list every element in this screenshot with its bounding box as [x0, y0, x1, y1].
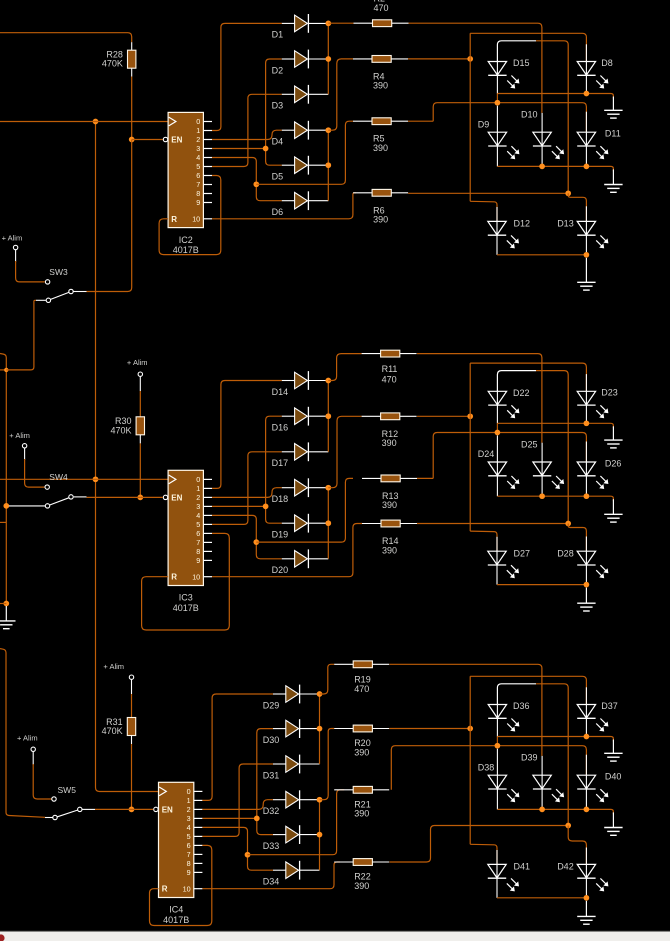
- svg-text:1: 1: [196, 126, 200, 135]
- LED D24: [488, 462, 506, 476]
- wire row1 cathode rail: [496, 75, 498, 93]
- IC4 4017B: [159, 782, 194, 897]
- svg-text:2: 2: [187, 805, 191, 814]
- node D29 cathode: [317, 691, 323, 697]
- wire to D13: [568, 193, 586, 221]
- svg-text:D2: D2: [272, 65, 284, 75]
- resistor R20 390: [334, 728, 353, 730]
- svg-text:D17: D17: [272, 458, 289, 468]
- diode D2: [282, 58, 295, 60]
- wire R31 to EN node: [131, 744, 133, 809]
- svg-text:6: 6: [196, 529, 200, 538]
- wire corner rail to D8: [470, 33, 586, 61]
- svg-text:470K: 470K: [102, 726, 123, 736]
- node D4 cathode: [325, 127, 331, 133]
- svg-text:390: 390: [354, 747, 369, 757]
- svg-text:8: 8: [196, 547, 200, 556]
- svg-text:3: 3: [196, 502, 200, 511]
- diode D32: [273, 799, 286, 801]
- wire SW3 lever to EN net: [74, 291, 87, 293]
- wire R19 to center LED D39: [390, 664, 542, 756]
- svg-text:D28: D28: [557, 548, 574, 558]
- node pin3 junction IC3: [263, 504, 269, 510]
- wire stub to edge y=522.4: [0, 521, 6, 523]
- wire SW5 lever to EN net: [82, 808, 95, 810]
- wire R2 to center LED D10: [409, 23, 542, 113]
- wire SW4 bottom to left net: [9, 505, 45, 507]
- LED D27: [488, 551, 506, 565]
- wire clock bus vertical: [95, 122, 97, 480]
- wire to D12: [470, 201, 497, 221]
- LED D23: [577, 391, 595, 405]
- node pin4 junction IC2: [253, 181, 259, 187]
- wire cathode rail D29-D31: [319, 694, 321, 764]
- wire pin1 IC4 to D29: [202, 694, 273, 800]
- node EN junction IC3: [137, 495, 143, 501]
- wire R13 row to row2 rail: [417, 477, 433, 479]
- svg-text:+ Alim: + Alim: [103, 662, 124, 671]
- resistor R31 470K: [127, 718, 135, 736]
- wire +Alim to SW3: [15, 250, 17, 262]
- svg-text:390: 390: [382, 438, 397, 448]
- ground GND row2: [612, 169, 614, 184]
- diode D19: [282, 522, 295, 524]
- node D33 cathode: [317, 832, 323, 838]
- wire SW4 lever to EN net: [74, 496, 87, 498]
- node middle rail junction: [565, 190, 571, 196]
- svg-text:D4: D4: [272, 137, 284, 147]
- node pin3 junction IC4: [254, 816, 260, 822]
- wire row2 anode rail: [391, 746, 497, 790]
- svg-text:3: 3: [196, 144, 200, 153]
- svg-text:6: 6: [187, 841, 191, 850]
- wire cathode rail D32-D34: [319, 800, 321, 871]
- node D19 cathode: [325, 520, 331, 526]
- svg-text:D25: D25: [521, 439, 538, 449]
- svg-text:6: 6: [196, 171, 200, 180]
- wire to D27: [470, 531, 497, 551]
- svg-text:470: 470: [354, 684, 369, 694]
- ground GND row1: [612, 426, 614, 440]
- svg-text:D22: D22: [513, 388, 530, 398]
- node D10 cathode: [539, 164, 545, 170]
- switch SW5: [57, 810, 77, 817]
- svg-text:+ Alim: + Alim: [9, 431, 30, 440]
- wire row2 cathode rail: [496, 789, 498, 809]
- svg-text:R: R: [171, 573, 177, 582]
- svg-text:2: 2: [196, 493, 200, 502]
- wire white series link rail: [497, 684, 536, 705]
- node D13 cathode: [584, 252, 590, 258]
- LED D25: [533, 462, 551, 476]
- wire corner-pip vertical block3: [469, 676, 471, 844]
- resistor R30 470K: [136, 417, 144, 435]
- node EN junction IC4: [129, 807, 135, 813]
- wire row3 cathode rail: [496, 878, 498, 898]
- wire pin3 IC3 row: [212, 505, 266, 507]
- resistor R6 390: [353, 192, 372, 194]
- svg-text:D8: D8: [601, 58, 613, 68]
- wire cathode rail D18-D20: [327, 488, 329, 559]
- resistor R2 470: [354, 22, 373, 24]
- svg-text:8: 8: [196, 189, 200, 198]
- LED D8: [577, 62, 595, 76]
- LED D26: [577, 462, 595, 476]
- node R12 rail junction: [467, 413, 473, 419]
- svg-text:470K: 470K: [110, 425, 131, 435]
- wire R22 row to cluster node: [390, 826, 569, 863]
- wire to D42: [568, 826, 586, 865]
- node R20 rail junction: [467, 726, 473, 732]
- ground GND row3: [585, 258, 587, 283]
- svg-text:3: 3: [187, 814, 191, 823]
- svg-text:R: R: [162, 885, 168, 894]
- LED D36: [488, 705, 506, 719]
- node R4 rail junction: [467, 56, 473, 62]
- diode D16: [282, 415, 295, 417]
- resistor R13 390: [362, 477, 381, 479]
- svg-text:D36: D36: [513, 701, 530, 711]
- wire +Alim to R31: [131, 680, 133, 694]
- wire pin6 reset loop IC3: [142, 533, 230, 630]
- wire link rail1-rail2: [496, 94, 498, 103]
- node D30 cathode: [317, 726, 323, 732]
- wire pin4 IC3 to D20: [212, 515, 282, 558]
- wire EN row block2: [87, 496, 141, 498]
- svg-text:R11: R11: [382, 364, 398, 374]
- svg-text:D9: D9: [478, 119, 490, 129]
- svg-text:390: 390: [373, 143, 388, 153]
- svg-text:390: 390: [382, 545, 397, 555]
- resistor R12 390: [362, 415, 381, 417]
- wire corner rail to D37: [470, 676, 586, 704]
- diode D20: [282, 558, 295, 560]
- svg-text:D19: D19: [272, 530, 289, 540]
- wire to D41: [470, 844, 497, 864]
- wire EN node down to SW3: [87, 140, 132, 292]
- resistor R11 470: [362, 353, 381, 355]
- svg-text:470: 470: [382, 375, 397, 385]
- svg-text:4: 4: [187, 823, 191, 832]
- svg-text:EN: EN: [171, 136, 182, 145]
- node D14 cathode: [325, 378, 331, 384]
- svg-text:D6: D6: [272, 207, 284, 217]
- svg-text:D32: D32: [263, 806, 280, 816]
- wire stub to edge y=369.9: [0, 369, 6, 371]
- wire pin4 IC4 to D34: [202, 827, 273, 870]
- LED D22: [488, 391, 506, 405]
- wire R12 to corner rail: [417, 415, 470, 417]
- resistor R28 470K: [131, 42, 133, 50]
- wire link rail1-rail2: [496, 737, 498, 746]
- node middle rail junction: [565, 521, 571, 527]
- wire row2 cathode rail: [496, 476, 498, 496]
- wire +V top feed to R28: [0, 33, 132, 43]
- svg-text:D33: D33: [263, 841, 280, 851]
- node middle rail junction: [565, 823, 571, 829]
- svg-text:D39: D39: [521, 753, 538, 763]
- svg-text:D12: D12: [514, 219, 531, 229]
- wire corner rail to D23: [470, 363, 586, 391]
- svg-text:9: 9: [196, 198, 200, 207]
- wire clock row block1: [0, 121, 168, 123]
- svg-text:D10: D10: [521, 110, 538, 120]
- node ground junction left: [3, 601, 9, 607]
- wire +Alim to SW4: [24, 448, 26, 460]
- wire pin5 IC4 to D31: [202, 764, 273, 836]
- svg-text:470: 470: [374, 3, 389, 13]
- svg-text:D31: D31: [263, 770, 280, 780]
- wire R4 to corner rail: [408, 58, 470, 60]
- wire pin5 IC2 to D3: [212, 94, 282, 166]
- LED D10: [533, 132, 551, 146]
- node D28 cathode: [584, 582, 590, 588]
- wire pin4 node to R21: [248, 790, 345, 855]
- diode D18: [282, 487, 295, 489]
- wire cathode rail D1-D3: [327, 23, 329, 94]
- wire pin6 reset loop IC2: [159, 176, 221, 255]
- wire pin4 node to R13: [256, 478, 353, 542]
- svg-text:D41: D41: [514, 862, 531, 872]
- svg-text:9: 9: [187, 868, 191, 877]
- wire row3 cathode rail: [496, 565, 498, 585]
- wire row3 cathode rail: [496, 235, 498, 255]
- svg-text:+ Alim: + Alim: [127, 358, 148, 367]
- resistor R22 390: [334, 861, 353, 863]
- window bottom bar: [0, 931, 670, 932]
- LED D12: [488, 221, 506, 235]
- svg-text:D26: D26: [605, 458, 622, 468]
- LED D11: [577, 132, 595, 146]
- wire pin1 IC3 to D14: [212, 381, 282, 489]
- svg-text:2: 2: [196, 135, 200, 144]
- node D11 cathode: [584, 164, 590, 170]
- svg-text:0: 0: [196, 117, 200, 126]
- svg-text:5: 5: [187, 832, 191, 841]
- svg-text:D29: D29: [263, 700, 280, 710]
- svg-text:SW3: SW3: [49, 267, 68, 277]
- node row2 anode junction: [495, 430, 501, 436]
- wire pin6 reset loop IC4: [150, 845, 212, 925]
- node D37 cathode: [584, 734, 590, 740]
- svg-text:D15: D15: [513, 58, 530, 68]
- svg-text:D20: D20: [272, 565, 289, 575]
- node D25 cathode: [539, 493, 545, 499]
- svg-text:D42: D42: [557, 862, 574, 872]
- svg-text:4: 4: [196, 511, 200, 520]
- svg-text:390: 390: [354, 881, 369, 891]
- wire R5 row to row2 rail: [408, 120, 433, 122]
- wire D29 node to R19: [320, 664, 335, 694]
- node D39 cathode: [539, 807, 545, 813]
- ground GND row3: [585, 901, 587, 917]
- svg-text:IC2: IC2: [179, 235, 193, 245]
- node D23 cathode: [584, 420, 590, 426]
- wire D4 node to R4: [328, 59, 353, 130]
- wire +Alim to R30: [139, 377, 141, 391]
- node row2 anode junction: [495, 100, 501, 106]
- resistor R14 390: [362, 523, 381, 525]
- wire link rail1-rail2: [496, 423, 498, 432]
- switch SW4: [50, 498, 69, 505]
- LED D9: [488, 132, 506, 146]
- svg-text:+ Alim: + Alim: [17, 733, 38, 742]
- svg-text:D11: D11: [605, 129, 621, 139]
- node D8 cathode: [584, 91, 590, 97]
- svg-text:D27: D27: [514, 548, 531, 558]
- svg-text:5: 5: [196, 520, 200, 529]
- wire pin10 IC3 to R14: [212, 524, 362, 577]
- wire pin2 IC3 to D18: [212, 488, 282, 498]
- wire pin4 node to R5: [256, 121, 353, 184]
- node D18 cathode: [325, 485, 331, 491]
- wire left-edge net upper: [0, 354, 6, 604]
- wire R11 to center LED D25: [417, 354, 542, 443]
- wire SW5 bottom lead: [45, 817, 53, 819]
- svg-text:D16: D16: [272, 423, 289, 433]
- LED D42: [577, 864, 595, 878]
- svg-text:10: 10: [192, 572, 200, 581]
- node EN junction IC2: [129, 137, 135, 143]
- resistor R21 390: [334, 789, 353, 791]
- wire pin10 IC2 to R6: [212, 193, 356, 219]
- wire row2 anode rail: [433, 433, 497, 479]
- resistor R19 470: [334, 663, 353, 665]
- wire R30 to EN node: [139, 443, 141, 497]
- wire row2 anode rail: [433, 103, 497, 122]
- wire stub to edge y=603.5: [0, 603, 6, 605]
- IC2 4017B: [168, 112, 203, 227]
- wire cathode rail D14-D17: [327, 381, 329, 452]
- wire cathode rail D4-D6: [327, 130, 329, 201]
- svg-text:D5: D5: [272, 172, 284, 182]
- wire SW3 bottom to left net: [36, 299, 46, 301]
- resistor R4 390: [353, 58, 372, 60]
- wire clock row block2: [0, 478, 168, 480]
- svg-text:390: 390: [382, 500, 397, 510]
- diode D33: [273, 834, 286, 836]
- svg-text:EN: EN: [171, 493, 182, 502]
- node D16 cathode: [325, 413, 331, 419]
- svg-text:4: 4: [196, 153, 200, 162]
- wire row1 cathode rail: [496, 718, 498, 736]
- node D40 cathode: [584, 807, 590, 813]
- wire R28 to EN node: [131, 77, 133, 140]
- wire pin3 IC2 row: [212, 148, 266, 150]
- wire pin2 IC2 to D4: [212, 130, 282, 139]
- wire diode rail D2-D5 feed: [266, 59, 282, 165]
- switch SW3: [51, 292, 69, 299]
- svg-text:4017B: 4017B: [173, 603, 199, 613]
- svg-text:7: 7: [196, 180, 200, 189]
- svg-text:D24: D24: [478, 449, 495, 459]
- svg-text:D38: D38: [478, 762, 495, 772]
- svg-text:1: 1: [187, 796, 191, 805]
- diode D1: [282, 22, 295, 24]
- wire diode rail D30-D33 feed: [257, 729, 273, 835]
- node D5 cathode: [325, 162, 331, 168]
- wire diode rail D16-D19 feed: [266, 416, 282, 523]
- ground GND row1: [612, 97, 614, 111]
- svg-text:D1: D1: [272, 30, 284, 40]
- wire R6 row to cluster: [408, 192, 568, 194]
- node row2 anode junction: [495, 743, 501, 749]
- wire white series link rail: [497, 371, 536, 392]
- wire R2 row from D1 node: [328, 22, 353, 24]
- wire pin5 IC3 to D17: [212, 452, 282, 525]
- svg-text:8: 8: [187, 859, 191, 868]
- node clock bus junction block2: [93, 476, 99, 482]
- svg-text:D3: D3: [272, 101, 284, 111]
- node pin4 junction IC3: [253, 539, 259, 545]
- resistor R5 390: [353, 120, 372, 122]
- svg-text:D34: D34: [263, 877, 280, 887]
- svg-text:D37: D37: [601, 701, 618, 711]
- diode D3: [282, 93, 295, 95]
- node D32 cathode: [317, 797, 323, 803]
- node D26 cathode: [584, 493, 590, 499]
- ground GND-left: [5, 606, 7, 621]
- svg-text:IC4: IC4: [169, 905, 183, 915]
- node clock bus junction block1: [93, 119, 99, 125]
- wire pin2 IC4 to D32: [202, 800, 273, 810]
- svg-text:4017B: 4017B: [173, 245, 199, 255]
- wire pin10 IC4 to R22: [202, 862, 340, 889]
- svg-text:4017B: 4017B: [163, 915, 189, 925]
- LED D13: [577, 221, 595, 235]
- wire corner-pip vertical block2: [469, 363, 471, 531]
- svg-text:D14: D14: [272, 387, 289, 397]
- diode D14: [282, 380, 295, 382]
- wire corner-pip vertical block1: [469, 33, 471, 201]
- wire EN stub to bubble: [132, 139, 163, 141]
- LED D41: [488, 864, 506, 878]
- wire D14 node to R11: [328, 354, 361, 381]
- LED D28: [577, 551, 595, 565]
- svg-text:SW5: SW5: [58, 785, 77, 795]
- svg-text:D13: D13: [557, 219, 574, 229]
- wire +Alim to SW5: [32, 752, 34, 765]
- node pin4 junction IC4: [245, 852, 251, 858]
- wire row2 cathode rail: [496, 146, 498, 166]
- wire D18 node to R12: [328, 416, 361, 487]
- diode D34: [273, 869, 286, 871]
- svg-text:390: 390: [354, 809, 369, 819]
- svg-text:390: 390: [373, 215, 388, 225]
- svg-text:D23: D23: [601, 388, 618, 398]
- svg-text:D30: D30: [263, 735, 280, 745]
- node D1 cathode: [325, 21, 331, 27]
- ground GND row2: [612, 812, 614, 827]
- IC3 4017B: [168, 470, 203, 585]
- svg-text:0: 0: [196, 475, 200, 484]
- svg-text:10: 10: [183, 884, 191, 893]
- LED D37: [577, 705, 595, 719]
- diode D6: [282, 200, 295, 202]
- LED D40: [577, 775, 595, 789]
- svg-text:SW4: SW4: [49, 472, 68, 482]
- svg-text:5: 5: [196, 162, 200, 171]
- wire to D28: [568, 524, 586, 552]
- wire EN row block3: [95, 808, 132, 810]
- wire left-edge net lower: [0, 649, 45, 818]
- svg-text:0: 0: [187, 787, 191, 796]
- wire row1 cathode rail: [496, 405, 498, 423]
- svg-text:D18: D18: [272, 494, 289, 504]
- svg-text:R: R: [171, 215, 177, 224]
- LED D38: [488, 775, 506, 789]
- node junction left net y=369.9: [4, 368, 8, 372]
